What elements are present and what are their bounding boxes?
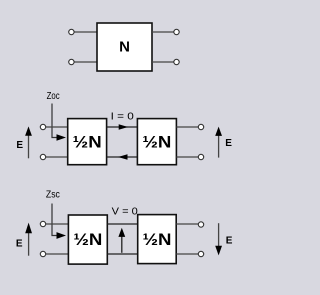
svg-text:½N: ½N [73, 132, 102, 151]
arrow: E response arrow up (middle right) [218, 135, 220, 158]
half network box 1/2N (bottom left) [68, 215, 107, 264]
terminal: bottom-right lower port circle [198, 251, 203, 256]
terminal: bottom-left lower port circle [40, 251, 45, 256]
svg-text:Zsc: Zsc [46, 189, 60, 200]
wire: bottom-right lower lead [176, 253, 198, 255]
Zsc pointer: stem and bend [52, 204, 58, 236]
terminal: middle-left lower port circle [40, 154, 45, 159]
wire: middle-right lower lead [176, 156, 198, 158]
arrow: E source arrow up (middle left) [28, 134, 30, 158]
wire: top-right upper lead [152, 31, 174, 33]
terminal: middle-right upper port circle [198, 124, 203, 129]
wire: middle-left upper lead [46, 126, 68, 128]
half network box 1/2N (middle right) [137, 119, 176, 165]
wire: middle-left lower lead [46, 156, 68, 158]
wire: bottom inner bottom connection [107, 253, 137, 255]
svg-text:E: E [226, 236, 233, 247]
wire: middle inner bottom connection [107, 156, 138, 158]
wire: bottom-right upper lead [176, 223, 198, 225]
svg-text:E: E [16, 140, 23, 151]
svg-text:½N: ½N [142, 132, 171, 151]
Zoc pointer: stem and bend [52, 104, 58, 138]
terminal: bottom-right upper port circle [198, 222, 203, 227]
svg-text:E: E [16, 238, 23, 249]
wire: top-left lower lead [74, 61, 97, 63]
terminal: middle-right lower port circle [198, 154, 203, 159]
wire: top-left upper lead [74, 31, 97, 33]
terminal: top-left lower port circle [69, 59, 74, 64]
wire: bottom-left lower lead [46, 253, 69, 255]
Zoc pointer arrowhead [57, 134, 67, 141]
wire: middle-right upper lead [176, 126, 198, 128]
terminal: bottom-left upper port circle [40, 221, 45, 226]
half network box 1/2N (middle left) [68, 119, 107, 165]
svg-text:E: E [225, 138, 232, 149]
arrowhead: current direction right on top inner wire [119, 124, 129, 130]
two-port network N (box) [97, 23, 152, 71]
svg-text:½N: ½N [73, 230, 102, 249]
wire: middle inner top connection [107, 126, 138, 128]
arrow: E response arrow down (bottom right) [218, 223, 220, 247]
svg-text:½N: ½N [143, 230, 172, 249]
wire: top-right lower lead [152, 61, 174, 63]
svg-text:N: N [119, 39, 130, 56]
half network box 1/2N (bottom right) [138, 215, 177, 264]
terminal: middle-left upper port circle [40, 124, 45, 129]
svg-text:Zoc: Zoc [47, 91, 60, 102]
wire: bottom inner top connection [107, 223, 137, 225]
wire: bottom-left upper lead [46, 223, 69, 225]
arrowhead: current direction left on bottom inner wire [118, 154, 128, 160]
terminal: top-right upper port circle [174, 29, 179, 34]
Zsc pointer arrowhead [57, 232, 67, 239]
svg-text:V = 0: V = 0 [112, 205, 138, 217]
arrow: voltage arrow up between boxes [121, 236, 123, 253]
svg-text:I = 0: I = 0 [111, 110, 134, 122]
terminal: top-right lower port circle [174, 59, 179, 64]
arrow: E source arrow up (bottom left) [28, 232, 30, 256]
terminal: top-left upper port circle [69, 29, 74, 34]
